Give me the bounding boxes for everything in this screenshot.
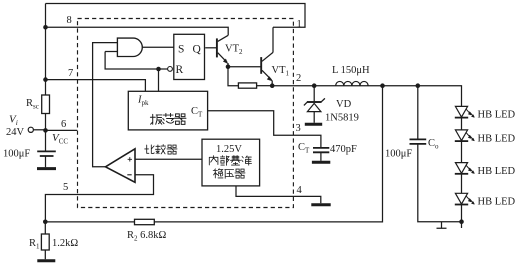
wire output rail pin2 to LED column [272,86,461,222]
svg-text:3: 3 [296,123,301,134]
wire latch Q output to VT2 base [205,47,216,49]
transistor VT2 emitter with arrow [218,53,228,67]
oscillator box [128,91,207,130]
svg-text:HB LED: HB LED [478,166,516,177]
transistor VT2 base bar [216,38,218,57]
wire reference box bottom to pin 4 ground [236,186,321,203]
ground (R1) [37,259,55,262]
wire timing capacitor to ground [320,153,322,161]
node pin8 junction [43,25,48,30]
node pin2 output junction [270,83,275,88]
svg-text:1: 1 [297,19,302,30]
svg-text:R: R [176,64,184,76]
resistor R2 6.8k [135,219,155,224]
LED D3 [455,163,467,174]
svg-text:1.25V: 1.25V [216,144,242,155]
svg-text:Co: Co [428,138,439,151]
text 稳压器 (voltage regulator) [213,169,223,178]
wire LED column bottom stub [461,222,463,228]
svg-text:4: 4 [297,185,303,196]
transistor VT1 base bar [260,57,262,74]
svg-text:R1: R1 [29,238,40,251]
wire pin 5 feedback to comparator inverting input [45,175,153,222]
svg-text:8: 8 [67,15,72,26]
node 24V/pin6 junction [43,128,48,133]
wire VT1 collector to pin 1 [272,27,274,52]
svg-text:HB LED: HB LED [478,197,516,208]
comparator triangle [106,149,136,183]
svg-text:VD: VD [336,99,352,110]
wire pin 7 to Ipk input of oscillator [46,80,146,92]
wire pin 8 to VT2 collector [46,27,229,35]
resistor (base bleed) inside IC [238,83,256,88]
capacitor Ci 100uF input [37,151,56,156]
latch (SR flip-flop) box [174,34,205,79]
diode VD 1N5819 schottky [307,101,322,103]
resistor Rsc [42,95,50,114]
text 振荡器 (oscillator) [150,114,162,124]
ground (input cap) [37,167,56,170]
wire output cap Co to rail [417,86,419,139]
transistor VT1 emitter with arrow [262,70,272,85]
reference regulator box 1.25V [202,139,260,186]
node VD junction [312,83,317,88]
wire ground stub at LED return [437,222,447,229]
svg-text:470pF: 470pF [330,144,357,155]
svg-text:VT1: VT1 [272,65,290,78]
LED D1 [455,106,467,117]
node VT2 emitter junction [226,64,231,69]
wire VT2 emitter node down and base of VT1 [228,67,261,86]
terminal Vi 24V input [28,127,33,132]
svg-text:L 150μH: L 150μH [332,65,370,76]
text 内部基准 (internal reference) [209,156,218,165]
node oscillator output junction [156,67,161,72]
comparator + input tick [128,157,132,161]
comparator - input tick [127,174,131,176]
AND gate U1 [117,38,142,56]
inductor L 150uH [336,81,368,85]
ground (CT) [312,161,330,164]
svg-text:100μF: 100μF [385,149,412,160]
resistor R1 1.2k [41,234,49,250]
wire Ct from oscillator to pin 3 and timing capacitor [208,111,321,148]
node R1/R2/pin5 junction [43,220,48,225]
wire VD diode anode to ground [313,112,315,123]
wire input filter cap stub [45,156,47,167]
wire oscillator node to R input circle [159,69,168,91]
dashed IC boundary box [78,19,294,208]
svg-text:CT: CT [298,142,310,155]
R input inverting circle [168,67,173,72]
wire 24V terminal to rail [33,129,45,131]
svg-text:Vi: Vi [9,114,18,128]
svg-text:CT: CT [191,106,203,119]
node feedback junction [380,83,385,88]
wire comparator + input to reference box [136,158,203,160]
svg-text:2: 2 [296,73,301,84]
node pin7 junction [43,77,48,82]
node LED return junction [459,219,464,224]
svg-text:1.2kΩ: 1.2kΩ [52,238,78,249]
LED D2 [455,130,467,141]
svg-text:HB LED: HB LED [478,133,516,144]
LED D4 [455,193,467,204]
node Co junction [416,83,421,88]
svg-text:S: S [178,44,184,56]
svg-text:VT2: VT2 [225,44,243,57]
text 比较器 (comparator) [145,145,155,154]
svg-text:6: 6 [61,119,66,130]
wire oscillator output to AND gate bottom input [105,52,158,70]
wire R2 to R1 node [45,221,134,223]
wire left vertical rail (Vcc/sense column) [45,4,47,96]
wire left rail between Rsc and 24V node [45,114,47,152]
svg-text:Q: Q [193,44,202,56]
transistor VT1 collector [262,52,273,61]
svg-text:24V: 24V [6,127,25,138]
wire R1 node down to resistor and ground [44,222,46,259]
wire VD diode top to rail [313,86,315,102]
transistor VT2 collector [218,35,229,41]
wire feedback divider from rail to R2 [154,86,382,222]
wire AND output to latch S input [142,46,174,48]
wire Co bottom to LED string return [418,144,462,221]
wire pin 6 Vcc stub [46,129,78,131]
capacitor Co output [410,139,427,144]
svg-text:HB LED: HB LED [478,109,516,120]
wire base-bleed resistor to pin2 node [257,85,273,87]
wire comparator output up-left to AND gate top input [93,43,118,167]
svg-text:Ipk: Ipk [137,95,149,108]
svg-text:5: 5 [63,182,68,193]
svg-text:R2 6.8kΩ: R2 6.8kΩ [127,230,167,243]
svg-text:1N5819: 1N5819 [325,113,359,124]
svg-text:100μF: 100μF [3,149,30,160]
svg-text:VCC: VCC [52,132,68,146]
svg-text:Rsc: Rsc [26,98,39,111]
wire top rail from pin1 loop to left rail [46,4,306,28]
svg-text:7: 7 [68,68,73,79]
ground (VD anode) [305,123,322,126]
capacitor CT 470pF [313,148,329,152]
ground (pin 4) [311,203,330,206]
